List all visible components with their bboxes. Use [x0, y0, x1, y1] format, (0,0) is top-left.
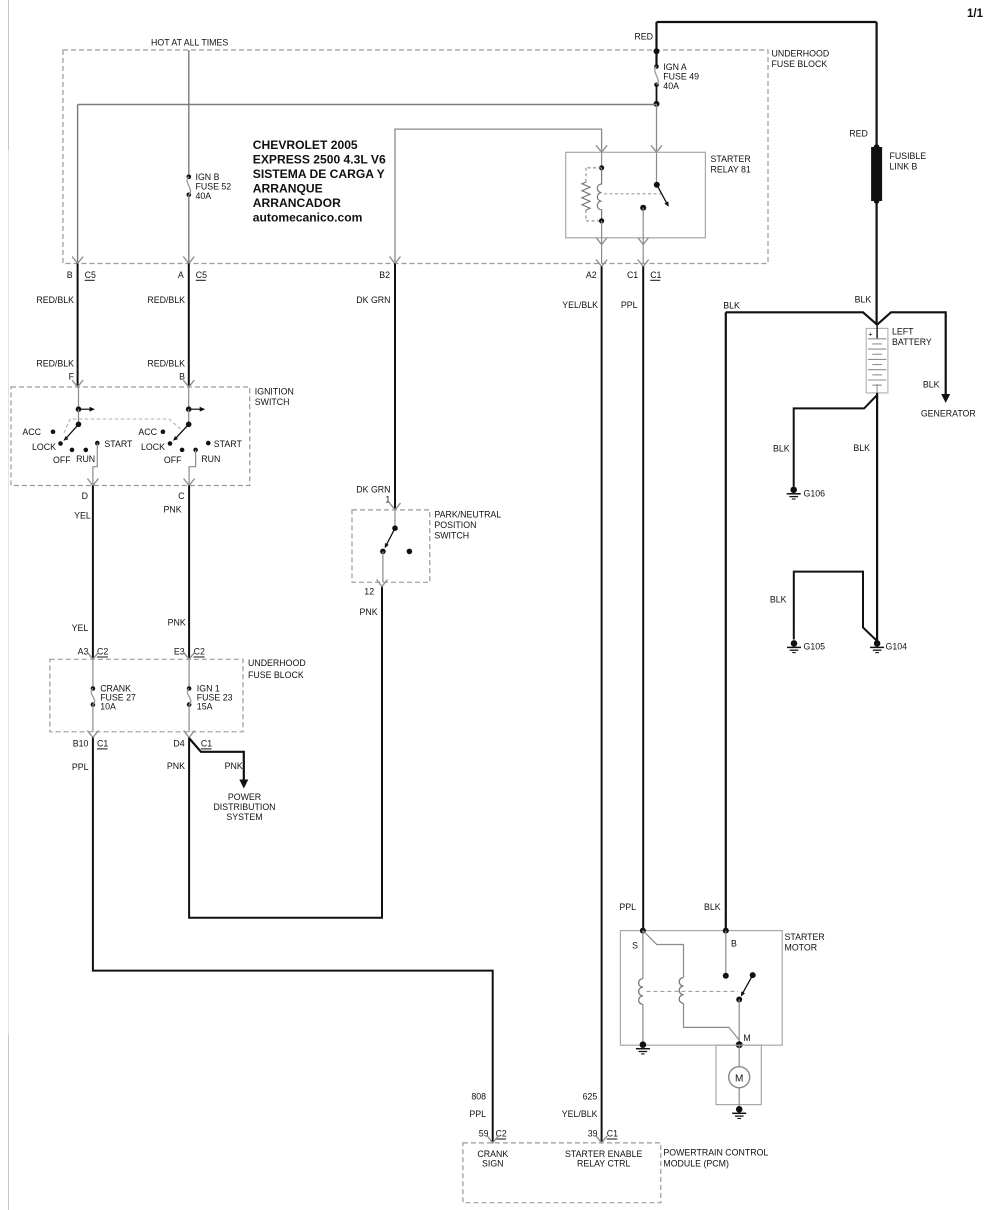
svg-text:C2: C2 — [97, 647, 108, 657]
svg-text:PPL: PPL — [619, 902, 636, 912]
svg-text:STARTER ENABLE: STARTER ENABLE — [565, 1149, 643, 1159]
svg-text:A2: A2 — [586, 270, 597, 280]
svg-text:C1: C1 — [650, 270, 661, 280]
svg-text:EXPRESS 2500 4.3L V6: EXPRESS 2500 4.3L V6 — [253, 153, 386, 167]
svg-text:YEL/BLK: YEL/BLK — [562, 300, 598, 310]
svg-text:LINK B: LINK B — [890, 162, 918, 172]
svg-text:PARK/NEUTRAL: PARK/NEUTRAL — [434, 510, 501, 520]
svg-text:OFF: OFF — [164, 455, 182, 465]
svg-text:YEL/BLK: YEL/BLK — [562, 1109, 598, 1119]
svg-text:FUSE 52: FUSE 52 — [196, 182, 232, 192]
svg-text:FUSIBLE: FUSIBLE — [890, 151, 927, 161]
svg-text:59: 59 — [479, 1129, 489, 1139]
svg-text:RELAY CTRL: RELAY CTRL — [577, 1158, 631, 1168]
svg-text:BLK: BLK — [723, 301, 740, 311]
svg-text:MOTOR: MOTOR — [785, 943, 818, 953]
svg-text:B: B — [731, 939, 737, 949]
svg-text:40A: 40A — [663, 81, 679, 91]
svg-text:PPL: PPL — [72, 762, 89, 772]
svg-text:B10: B10 — [73, 738, 89, 748]
svg-text:C1: C1 — [627, 270, 638, 280]
svg-text:ACC: ACC — [22, 427, 41, 437]
svg-text:B: B — [67, 270, 73, 280]
svg-text:10A: 10A — [100, 702, 116, 712]
svg-text:DISTRIBUTION: DISTRIBUTION — [213, 802, 275, 812]
svg-text:IGNITION: IGNITION — [255, 387, 294, 397]
svg-text:15A: 15A — [197, 702, 213, 712]
svg-text:CRANK: CRANK — [477, 1149, 508, 1159]
svg-text:YEL: YEL — [72, 623, 89, 633]
svg-text:IGN B: IGN B — [196, 172, 220, 182]
svg-text:ARRANQUE: ARRANQUE — [253, 182, 323, 196]
svg-text:BATTERY: BATTERY — [892, 337, 932, 347]
svg-text:START: START — [214, 439, 243, 449]
svg-text:FUSE BLOCK: FUSE BLOCK — [772, 59, 828, 69]
svg-text:D: D — [82, 491, 88, 501]
svg-text:G105: G105 — [804, 642, 826, 652]
svg-text:M: M — [735, 1074, 743, 1085]
svg-text:E3: E3 — [174, 647, 185, 657]
svg-text:B: B — [179, 372, 185, 382]
svg-text:ARRANCADOR: ARRANCADOR — [253, 196, 341, 210]
svg-text:IGN A: IGN A — [663, 62, 687, 72]
svg-text:YEL: YEL — [74, 510, 91, 520]
svg-text:12: 12 — [364, 586, 374, 596]
svg-text:START: START — [104, 439, 133, 449]
svg-text:GENERATOR: GENERATOR — [921, 409, 976, 419]
svg-text:BLK: BLK — [923, 380, 940, 390]
svg-text:STARTER: STARTER — [711, 154, 751, 164]
svg-text:B2: B2 — [379, 270, 390, 280]
svg-text:SISTEMA DE CARGA Y: SISTEMA DE CARGA Y — [253, 167, 385, 181]
svg-text:BLK: BLK — [855, 295, 872, 305]
svg-text:LEFT: LEFT — [892, 327, 914, 337]
svg-text:1/1: 1/1 — [967, 8, 984, 20]
svg-text:FUSE 49: FUSE 49 — [663, 72, 699, 82]
svg-text:RED: RED — [849, 129, 868, 139]
svg-text:SWITCH: SWITCH — [434, 531, 469, 541]
svg-text:RUN: RUN — [76, 454, 95, 464]
svg-text:automecanico.com: automecanico.com — [253, 211, 363, 225]
svg-text:RED: RED — [634, 32, 653, 42]
svg-text:UNDERHOOD: UNDERHOOD — [772, 49, 830, 59]
svg-text:RED/BLK: RED/BLK — [147, 295, 185, 305]
svg-text:POWER: POWER — [228, 792, 261, 802]
svg-text:DK GRN: DK GRN — [356, 295, 390, 305]
svg-text:RELAY 81: RELAY 81 — [711, 165, 751, 175]
svg-text:D4: D4 — [173, 738, 184, 748]
svg-text:A3: A3 — [78, 647, 89, 657]
svg-text:POSITION: POSITION — [434, 520, 476, 530]
svg-text:G106: G106 — [804, 489, 826, 499]
svg-text:STARTER: STARTER — [785, 932, 825, 942]
svg-text:RUN: RUN — [201, 454, 220, 464]
svg-text:C5: C5 — [85, 270, 96, 280]
svg-text:C: C — [178, 491, 185, 501]
svg-text:CHEVROLET 2005: CHEVROLET 2005 — [253, 138, 358, 152]
svg-text:HOT AT ALL TIMES: HOT AT ALL TIMES — [151, 38, 228, 48]
svg-text:+: + — [868, 330, 873, 339]
svg-text:C1: C1 — [201, 738, 212, 748]
svg-text:BLK: BLK — [773, 444, 790, 454]
svg-text:C1: C1 — [607, 1129, 618, 1139]
svg-text:808: 808 — [471, 1092, 486, 1102]
svg-text:625: 625 — [583, 1092, 598, 1102]
svg-text:M: M — [743, 1033, 750, 1043]
svg-text:POWERTRAIN CONTROL: POWERTRAIN CONTROL — [663, 1148, 768, 1158]
svg-text:PNK: PNK — [225, 761, 243, 771]
svg-text:LOCK: LOCK — [32, 442, 56, 452]
svg-text:SWITCH: SWITCH — [255, 397, 290, 407]
svg-text:A: A — [178, 270, 184, 280]
svg-text:PNK: PNK — [168, 618, 186, 628]
svg-text:RED/BLK: RED/BLK — [36, 359, 74, 369]
svg-text:PNK: PNK — [360, 607, 378, 617]
svg-text:40A: 40A — [196, 191, 212, 201]
svg-text:BLK: BLK — [704, 902, 721, 912]
svg-text:SIGN: SIGN — [482, 1158, 504, 1168]
svg-text:PNK: PNK — [167, 761, 185, 771]
svg-text:PPL: PPL — [469, 1109, 486, 1119]
svg-text:BLK: BLK — [770, 595, 787, 605]
svg-text:FUSE BLOCK: FUSE BLOCK — [248, 670, 304, 680]
svg-text:C2: C2 — [194, 647, 205, 657]
svg-text:PPL: PPL — [621, 300, 638, 310]
svg-text:C5: C5 — [196, 270, 207, 280]
svg-text:F: F — [69, 372, 75, 382]
svg-text:S: S — [632, 941, 638, 951]
svg-text:SYSTEM: SYSTEM — [226, 812, 262, 822]
svg-text:RED/BLK: RED/BLK — [36, 295, 74, 305]
svg-text:DK GRN: DK GRN — [356, 485, 390, 495]
svg-text:BLK: BLK — [853, 443, 870, 453]
svg-text:G104: G104 — [886, 642, 908, 652]
svg-text:UNDERHOOD: UNDERHOOD — [248, 658, 306, 668]
svg-text:OFF: OFF — [53, 455, 71, 465]
svg-text:PNK: PNK — [164, 504, 182, 514]
svg-text:RED/BLK: RED/BLK — [147, 359, 185, 369]
svg-text:LOCK: LOCK — [141, 442, 165, 452]
svg-text:C1: C1 — [97, 738, 108, 748]
svg-text:MODULE (PCM): MODULE (PCM) — [663, 1159, 729, 1169]
svg-text:ACC: ACC — [138, 427, 157, 437]
